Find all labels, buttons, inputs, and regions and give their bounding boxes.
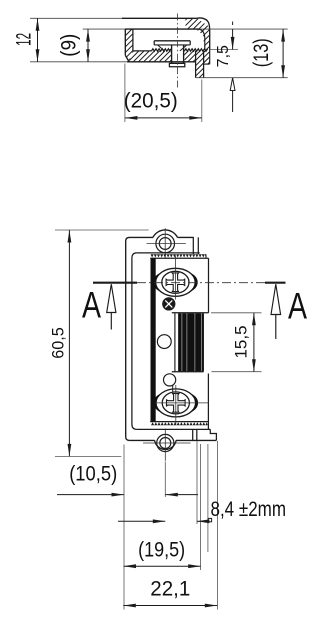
svg-text:A: A (82, 284, 101, 326)
top view: serrated interface right segment (184, 49, 207, 51)
faceplate bottom edge left segment (129, 439, 154, 441)
svg-text:7,5: 7,5 (215, 45, 232, 67)
dim 12 arrow bottom (36, 49, 40, 62)
rib highlight 1 (181, 313, 183, 371)
small locking screw (163, 298, 175, 310)
top adjustment screw (phillips) (156, 268, 196, 296)
lower pin line (172, 385, 174, 392)
keeper right edge upper (208, 258, 210, 313)
rib block outline left (177, 313, 179, 371)
faceplate bottom edge right segment (176, 439, 216, 441)
ext line 200.5 (200, 444, 202, 570)
ext line latch left 197 (196, 441, 198, 524)
screw centerline (176, 14, 178, 89)
dim 7,5 arrow down (231, 37, 235, 50)
dim 7,5 line lower tail (232, 78, 234, 112)
serrated adjustment teeth top row (151, 254, 207, 257)
bottom tab screw hole outer circle (157, 434, 174, 451)
section line A-A thick right (265, 282, 286, 284)
screw head bottom line (154, 44, 190, 46)
keeper right edge lower (207, 374, 209, 430)
dim (20,5) arrow right (189, 116, 202, 120)
top view: serrated interface left segment (151, 49, 170, 51)
rib highlight 2 (186, 313, 188, 371)
top view: faceplate front edge + ext line for 12/(9) (30, 61, 128, 63)
screw foot flange (169, 63, 184, 66)
dim (10,5) arrow (112, 493, 125, 497)
bottom tab hole centerline horizontal (143, 442, 191, 444)
ext line right 217.4 (216, 441, 218, 610)
svg-text:(10,5): (10,5) (69, 463, 117, 486)
dim (20,5) arrow left (125, 116, 137, 120)
top view: extension line for dim 12 (top of housing) (30, 17, 123, 19)
dim 8,4 arrow2 (197, 519, 210, 523)
recess bottom edge (137, 428, 210, 430)
dim (19,5) arrow left (124, 564, 137, 568)
top view: latch lip outer curve (197, 18, 210, 50)
middle hole (157, 335, 171, 349)
svg-text:(9): (9) (58, 34, 81, 57)
faceplate top right slot line b (197, 237, 199, 254)
screw head slant left (158, 45, 165, 51)
keeper step piece left edge (195, 51, 197, 78)
svg-text:60,5: 60,5 (49, 327, 68, 359)
serrated adjustment teeth bottom row (151, 422, 208, 425)
faceplate top edge right segment (177, 236, 193, 238)
dim 7,5 arrow up (open) (230, 78, 235, 91)
recess left edge with corners (132, 253, 137, 430)
top tab hole centerline horizontal (147, 243, 186, 245)
svg-text:A: A (288, 285, 307, 327)
dim 60,5 ext top (55, 229, 149, 231)
serration right end edge (205, 254, 207, 258)
top view: housing left bottom chamfer (125, 55, 129, 61)
bottom screw vertical centerline (175, 385, 177, 425)
dim (13) arrow bottom (281, 65, 285, 78)
small locking screw slots (165, 300, 172, 307)
faceplate bottom right slot line a (192, 430, 194, 441)
dim (20,5) line (125, 117, 202, 119)
keeper latch inner edge (174, 313, 176, 371)
top view: housing back top edge (122, 17, 197, 19)
faceplate bottom tab dome (155, 440, 177, 449)
ext line 15,5 top (211, 312, 262, 314)
dim 60,5 arrow top (68, 230, 72, 243)
ext line left plate to bottom dims (123, 445, 125, 610)
screw head top line (154, 40, 190, 42)
dim 12 arrow top (36, 18, 40, 31)
screw head side right (189, 41, 191, 45)
dim 15,5 line (253, 313, 255, 372)
svg-text:(20,5): (20,5) (124, 90, 178, 113)
dim 15,5 arrow top (252, 313, 256, 326)
keeper ledge bottom (204, 63, 210, 65)
dim (10,5) arrow2 (165, 493, 178, 497)
svg-text:22,1: 22,1 (150, 578, 190, 601)
ext line hole center to bottom dims (164, 462, 166, 498)
dim (13) line (282, 29, 284, 78)
top view: housing left inner wall (132, 29, 134, 51)
dim 7,5 dash above (232, 22, 234, 26)
svg-text:12: 12 (13, 33, 36, 46)
keeper top edge (150, 257, 208, 259)
dim 15,5 arrow bottom (252, 359, 256, 372)
keeper step line upper (172, 312, 209, 314)
lower pin circle (164, 374, 176, 386)
keeper step piece right edge (203, 50, 205, 77)
ext line 15,5 bottom (212, 371, 262, 373)
section arrow left (open) (107, 284, 116, 329)
rib block outline right (203, 313, 205, 371)
dim 22,1 arrow left (123, 604, 136, 608)
section line A-A dash-dot (137, 282, 265, 284)
keeper step line lower (172, 371, 204, 373)
dim (9) arrow bottom (86, 49, 90, 62)
keeper bottom edge (150, 421, 208, 423)
dim 60,5 ext bottom (55, 455, 121, 457)
rib highlight 3 (194, 313, 196, 371)
top view: housing inner floor line (133, 50, 151, 52)
screw head slant right (180, 45, 187, 51)
bottom tab hole centerline vertical (164, 429, 166, 461)
dim 12 line (37, 18, 39, 62)
dim (19,5) line (124, 565, 201, 567)
ext line 207.9 (207, 444, 209, 552)
dim 8,4 end square (208, 518, 211, 521)
dim 7,5 line upper tail (232, 29, 234, 49)
faceplate top mounting tab dome (153, 230, 178, 237)
faceplate top edge left segment (130, 236, 154, 238)
faceplate bottom right slot line b (196, 430, 198, 441)
top view: housing inner top edge (object line) (125, 28, 198, 30)
dim (10,5) line right tail (165, 494, 198, 496)
section arrow right (open) (271, 284, 281, 339)
top tab screw hole outer circle (156, 234, 175, 253)
svg-text:(19,5): (19,5) (138, 539, 185, 562)
bottom adjustment screw (phillips) (156, 389, 196, 417)
dim 8,4 line right tail (197, 520, 208, 522)
keeper step bottom + ext line for 7,5/(13) (196, 77, 288, 79)
screw shank left (171, 45, 173, 64)
dim 22,1 line (123, 605, 217, 607)
dim (10,5) line left tail (57, 494, 124, 496)
dim (19,5) arrow right (188, 564, 201, 568)
svg-text:(13): (13) (250, 38, 273, 67)
dim (9) line (87, 29, 89, 62)
top view: extension of serrated plane for dim 7,5 (210, 49, 239, 51)
keeper ribbed latch block (179, 313, 204, 371)
faceplate left edge with corners (126, 237, 130, 440)
dim 8,4 line left tail (118, 520, 165, 522)
dim 60,5 arrow bottom (68, 444, 72, 457)
rib highlight 4 (200, 313, 202, 371)
recess top edge (137, 252, 200, 254)
screw head side left (153, 41, 155, 45)
svg-text:15,5: 15,5 (231, 325, 250, 358)
keeper ledge right edge (209, 50, 211, 64)
dim (13) arrow top (281, 29, 285, 41)
dim 22,1 arrow right (205, 604, 218, 608)
dim (20,5) ext left (124, 64, 126, 123)
keeper thick left bar (151, 258, 156, 421)
top view: faceplate front edge (object) (127, 61, 195, 63)
dim (20,5) ext right (201, 80, 203, 123)
top screw vertical centerline (174, 256, 176, 300)
section line A-A thick left (93, 282, 137, 284)
top view: housing left outer wall (124, 29, 126, 55)
dim (9) arrow top (86, 29, 90, 41)
top view: extension line for dims (9)/(13) + housing inner top edge (83, 28, 288, 30)
screw shank right (183, 45, 185, 64)
top view: latch lip inner curve (199, 29, 205, 50)
top tab screw hole inner circle (159, 238, 171, 250)
faceplate top right slot line a (192, 237, 194, 254)
dim 8,4 arrow (153, 519, 166, 523)
dim 60,5 line (68, 230, 70, 456)
bottom tab screw hole inner circle (160, 438, 171, 449)
svg-text:8,4 ±2mm: 8,4 ±2mm (211, 498, 287, 521)
faceplate bottom right step (210, 429, 216, 440)
top tab hole centerline vertical (164, 228, 166, 258)
bottom screw horizontal centerline (155, 402, 209, 404)
